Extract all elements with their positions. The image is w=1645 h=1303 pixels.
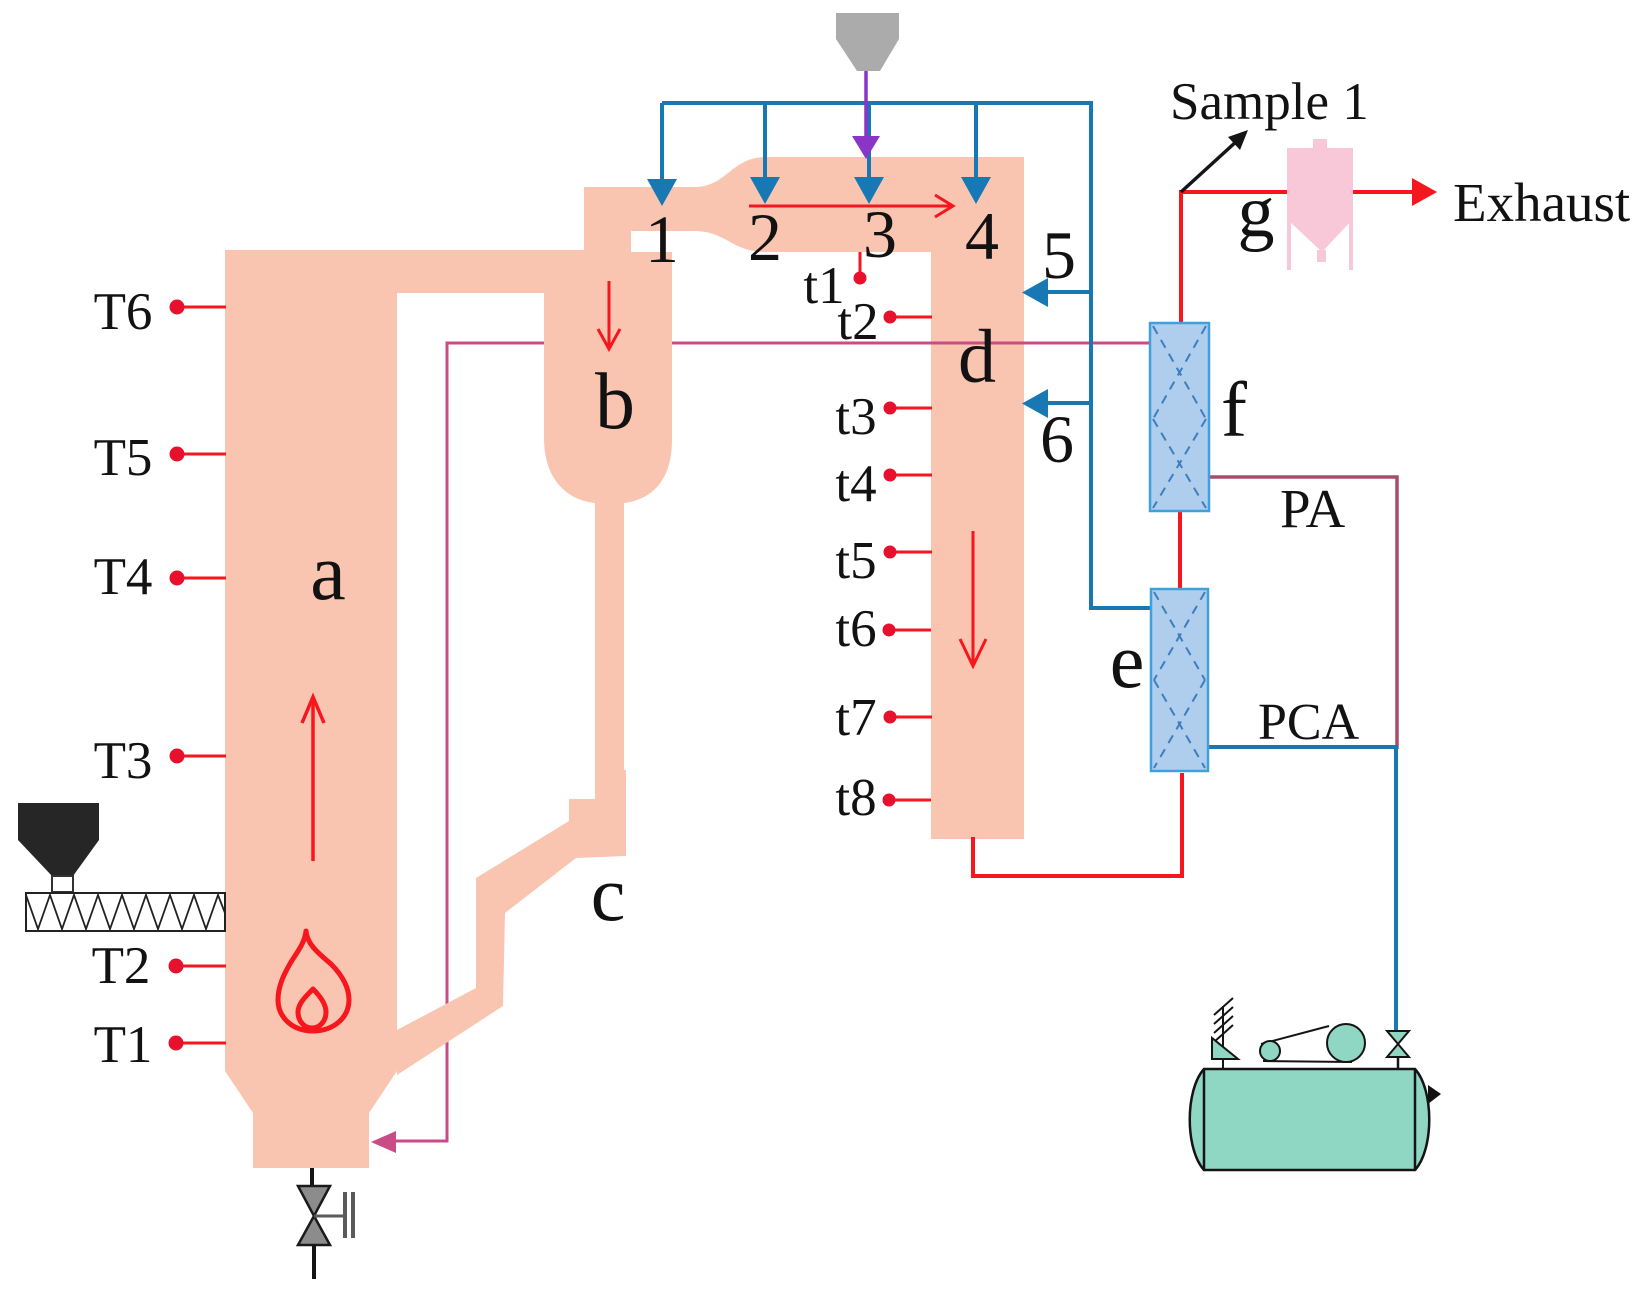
svg-text:t4: t4 [835, 455, 876, 513]
wire t4 tap [890, 474, 932, 477]
motor pulley on tank [1261, 1026, 1329, 1044]
svg-text:T6: T6 [94, 283, 153, 341]
wire T1 tap [177, 1042, 226, 1045]
node exhaust arrowhead [1412, 178, 1437, 206]
svg-text:T3: T3 [94, 732, 153, 790]
svg-text:t5: t5 [835, 532, 876, 590]
column a [225, 250, 397, 1168]
wire T5 tap [177, 453, 226, 456]
node T4 dot [170, 571, 185, 586]
svg-text:PCA: PCA [1258, 694, 1360, 751]
wire t8 tap [889, 799, 931, 802]
valve on tank outlet [1397, 1056, 1400, 1069]
node arrowhead inlet 2 [750, 177, 780, 204]
node arrowhead 6 into d [1022, 389, 1048, 418]
svg-text:t7: t7 [835, 689, 876, 747]
wire purple feed line [864, 71, 868, 146]
svg-text:g: g [1238, 171, 1275, 253]
column d [931, 157, 1024, 839]
svg-text:T4: T4 [94, 548, 153, 606]
wire blue air manifold [662, 101, 1151, 608]
wire branch 6 [1046, 401, 1091, 405]
node T2 dot [169, 959, 184, 974]
wire t5 tap [890, 551, 932, 554]
wire t7 tap [890, 716, 932, 719]
svg-text:T1: T1 [94, 1016, 153, 1074]
wire t6 tap [889, 629, 931, 632]
wire t3 tap [890, 407, 932, 410]
svg-text:b: b [595, 358, 635, 446]
screw feeder [26, 893, 225, 931]
svg-text:a: a [310, 529, 346, 617]
flow arrow down inside d [960, 531, 986, 666]
hopper biomass feeder (black) [18, 803, 99, 876]
svg-text:2: 2 [748, 199, 782, 275]
node t8 dot [883, 794, 896, 807]
node arrowhead inlet 4 [961, 177, 991, 204]
svg-text:Sample 1: Sample 1 [1170, 73, 1369, 131]
svg-text:e: e [1110, 617, 1145, 704]
node t2 dot [884, 311, 897, 324]
wire T4 tap [177, 577, 226, 580]
svg-text:Exhaust: Exhaust [1453, 172, 1630, 233]
node white notch at inlet 1 [631, 231, 674, 252]
node tank nameplate arrow [1428, 1085, 1441, 1104]
flow arrow right in top pipe [749, 195, 953, 217]
svg-text:T2: T2 [92, 937, 151, 995]
pipe top bottle (inlets 1-4) [672, 157, 1024, 252]
node T1 dot [169, 1036, 184, 1051]
thermocouples T1-T6 on column a [177, 252, 932, 1043]
node t4 dot [884, 469, 897, 482]
wire magenta recycle line b to f and b to bottom of a [393, 343, 1150, 1141]
node arrowhead inlet 1 [647, 179, 677, 206]
flow arrow down inside b [598, 281, 620, 349]
node T5 dot [170, 447, 185, 462]
node T6 dot [170, 300, 185, 315]
heat exchanger e [1151, 589, 1208, 771]
svg-text:t8: t8 [835, 769, 876, 827]
wire t1 tap [859, 252, 862, 276]
wire T2 tap [177, 965, 226, 968]
wire d bottom to e bottom [973, 773, 1182, 876]
svg-text:t2: t2 [837, 293, 878, 351]
wire drop to inlet 1 [660, 103, 664, 182]
node arrowhead 5 into d [1022, 278, 1048, 307]
wire drop to inlet 2 [763, 101, 767, 180]
svg-text:t6: t6 [835, 600, 876, 658]
burner flame in a [278, 931, 349, 1031]
node purple arrowhead [852, 136, 880, 159]
svg-text:d: d [958, 315, 996, 399]
wire drop to inlet 4 [974, 101, 978, 180]
svg-text:5: 5 [1042, 217, 1076, 293]
node t3 dot [884, 402, 897, 415]
svg-text:t3: t3 [835, 388, 876, 446]
flow arrow up inside a [302, 697, 324, 861]
svg-text:1: 1 [645, 201, 679, 277]
svg-text:6: 6 [1040, 401, 1074, 477]
pipe riser to inlet 1 [584, 187, 672, 300]
node T3 dot [170, 749, 185, 764]
wire branch 5 [1046, 290, 1091, 294]
wire drop to inlet 3 [867, 101, 871, 180]
wire PCA line (blue) [1208, 747, 1396, 1031]
hopper top feeder (gray) [836, 13, 899, 71]
wire t2 tap [890, 316, 932, 319]
wire T6 tap [177, 306, 226, 309]
svg-text:T5: T5 [94, 429, 153, 487]
svg-text:f: f [1221, 366, 1247, 453]
pipe a to b (horizontal) [397, 250, 672, 293]
node arrowhead inlet 3 [854, 177, 884, 204]
svg-text:3: 3 [863, 196, 897, 272]
wire sample 1 arrow (black) [1181, 140, 1238, 192]
svg-text:4: 4 [965, 198, 999, 274]
pipe c return leg [397, 770, 626, 1075]
relief valve on tank [1214, 998, 1233, 1069]
node t1 dot [854, 272, 867, 285]
node t7 dot [884, 711, 897, 724]
cyclone b [544, 292, 672, 503]
heat exchanger f [1150, 323, 1209, 511]
wire red gas line: f top to sample junction to exhaust [973, 192, 1414, 876]
node t5 dot [884, 546, 897, 559]
compressor tank [1190, 1069, 1430, 1170]
wire PA line (maroon) [1209, 477, 1397, 749]
node magenta arrow into a [371, 1131, 396, 1153]
drain valve under a [310, 1168, 314, 1188]
wire T3 tap [177, 755, 226, 758]
svg-text:c: c [591, 850, 626, 937]
filter g (pink) [1287, 139, 1353, 270]
svg-text:PA: PA [1280, 478, 1346, 539]
pipe b downcomer [595, 500, 624, 800]
wire f to e [1178, 509, 1182, 591]
node t6 dot [883, 624, 896, 637]
